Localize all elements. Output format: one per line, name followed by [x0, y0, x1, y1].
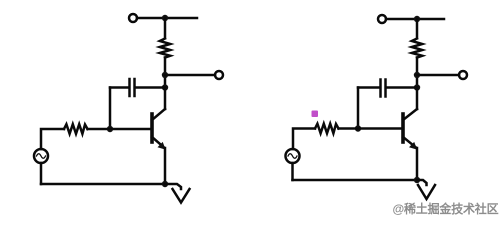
transistor Q2 emitter arrowhead: [409, 142, 417, 150]
transistor Q1 emitter arrowhead: [158, 142, 166, 150]
transistor Q1 collector diagonal: [152, 109, 165, 120]
wire base right segment: [88, 128, 152, 131]
wire top rail right circuit: [386, 18, 444, 21]
terminal output right (open circle): [459, 71, 467, 79]
capacitor C (feedback capacitor plates): [133, 79, 136, 96]
source sine squiggle: [37, 154, 46, 159]
wire RC bottom lead: [164, 58, 167, 88]
resistor RC (collector resistor, vertical zigzag): [160, 39, 170, 58]
source sine squiggle right: [288, 154, 297, 159]
wire capacitor right lead: [387, 86, 417, 89]
wire ground stub right: [417, 180, 427, 185]
ground (left circuit, down arrow): [173, 189, 190, 203]
resistor RC2 (collector resistor, vertical zigzag): [412, 39, 422, 58]
node capacitor tap: [162, 84, 168, 90]
node base junction right: [355, 125, 361, 131]
wire RC top lead: [416, 19, 419, 38]
terminal VCC (left circuit, open circle top-left): [129, 14, 137, 22]
wire capacitor right lead: [136, 86, 165, 89]
annotation dot (magenta): [312, 111, 319, 118]
node capacitor tap right: [414, 84, 420, 90]
wire capacitor left lead: [110, 86, 128, 89]
wire RC2 bottom lead: [416, 58, 419, 88]
wire ground stub: [165, 184, 181, 189]
wire base right segment right circuit: [339, 127, 403, 130]
transistor Q2 (NPN, base bar): [401, 114, 405, 142]
node output right: [414, 72, 420, 78]
wire source bottom lead right: [291, 163, 294, 180]
resistor RS (source resistor, horizontal zigzag): [64, 124, 88, 134]
wire output: [165, 74, 215, 77]
wire top rail left circuit: [137, 17, 197, 20]
wire RC top lead: [164, 18, 167, 38]
wire capacitor left lead: [358, 86, 379, 89]
wire base left segment right circuit: [293, 129, 315, 150]
node emitter-ground right: [414, 177, 420, 183]
transistor Q1 emitter diagonal: [152, 137, 164, 148]
capacitor C2 (feedback capacitor plates): [384, 80, 387, 97]
transistor Q1 (NPN, base bar): [150, 114, 154, 142]
ground (right circuit, down arrow): [418, 185, 435, 199]
wire base left segment: [41, 129, 64, 149]
node top rail / RC top: [162, 15, 168, 21]
wire output right: [417, 74, 459, 77]
wire emitter vertical right: [416, 148, 419, 180]
node output (collector node): [162, 72, 168, 78]
source VS (AC source circle): [34, 149, 48, 163]
wire bottom rail left circuit: [41, 183, 165, 186]
transistor Q2 collector diagonal: [403, 109, 417, 120]
source VS2 (AC source circle): [286, 149, 300, 163]
wire collector vertical: [164, 88, 167, 110]
node emitter-ground: [162, 181, 168, 187]
wire collector vertical right: [416, 88, 419, 110]
svg-text:@稀土掘金技术社区: @稀土掘金技术社区: [393, 201, 499, 216]
node base junction: [107, 126, 113, 132]
wire capacitor drop to base: [109, 88, 112, 130]
terminal VCC (right circuit): [378, 15, 386, 23]
wire bottom rail right circuit: [293, 179, 418, 182]
wire emitter vertical: [164, 148, 167, 184]
terminal output (open circle): [215, 71, 223, 79]
wire source bottom lead: [40, 163, 43, 184]
wire capacitor drop to base: [357, 88, 360, 129]
transistor Q2 emitter diagonal: [403, 137, 416, 148]
node top rail / RC top: [414, 16, 420, 22]
resistor RS2 (source resistor, horizontal zigzag): [315, 124, 339, 134]
